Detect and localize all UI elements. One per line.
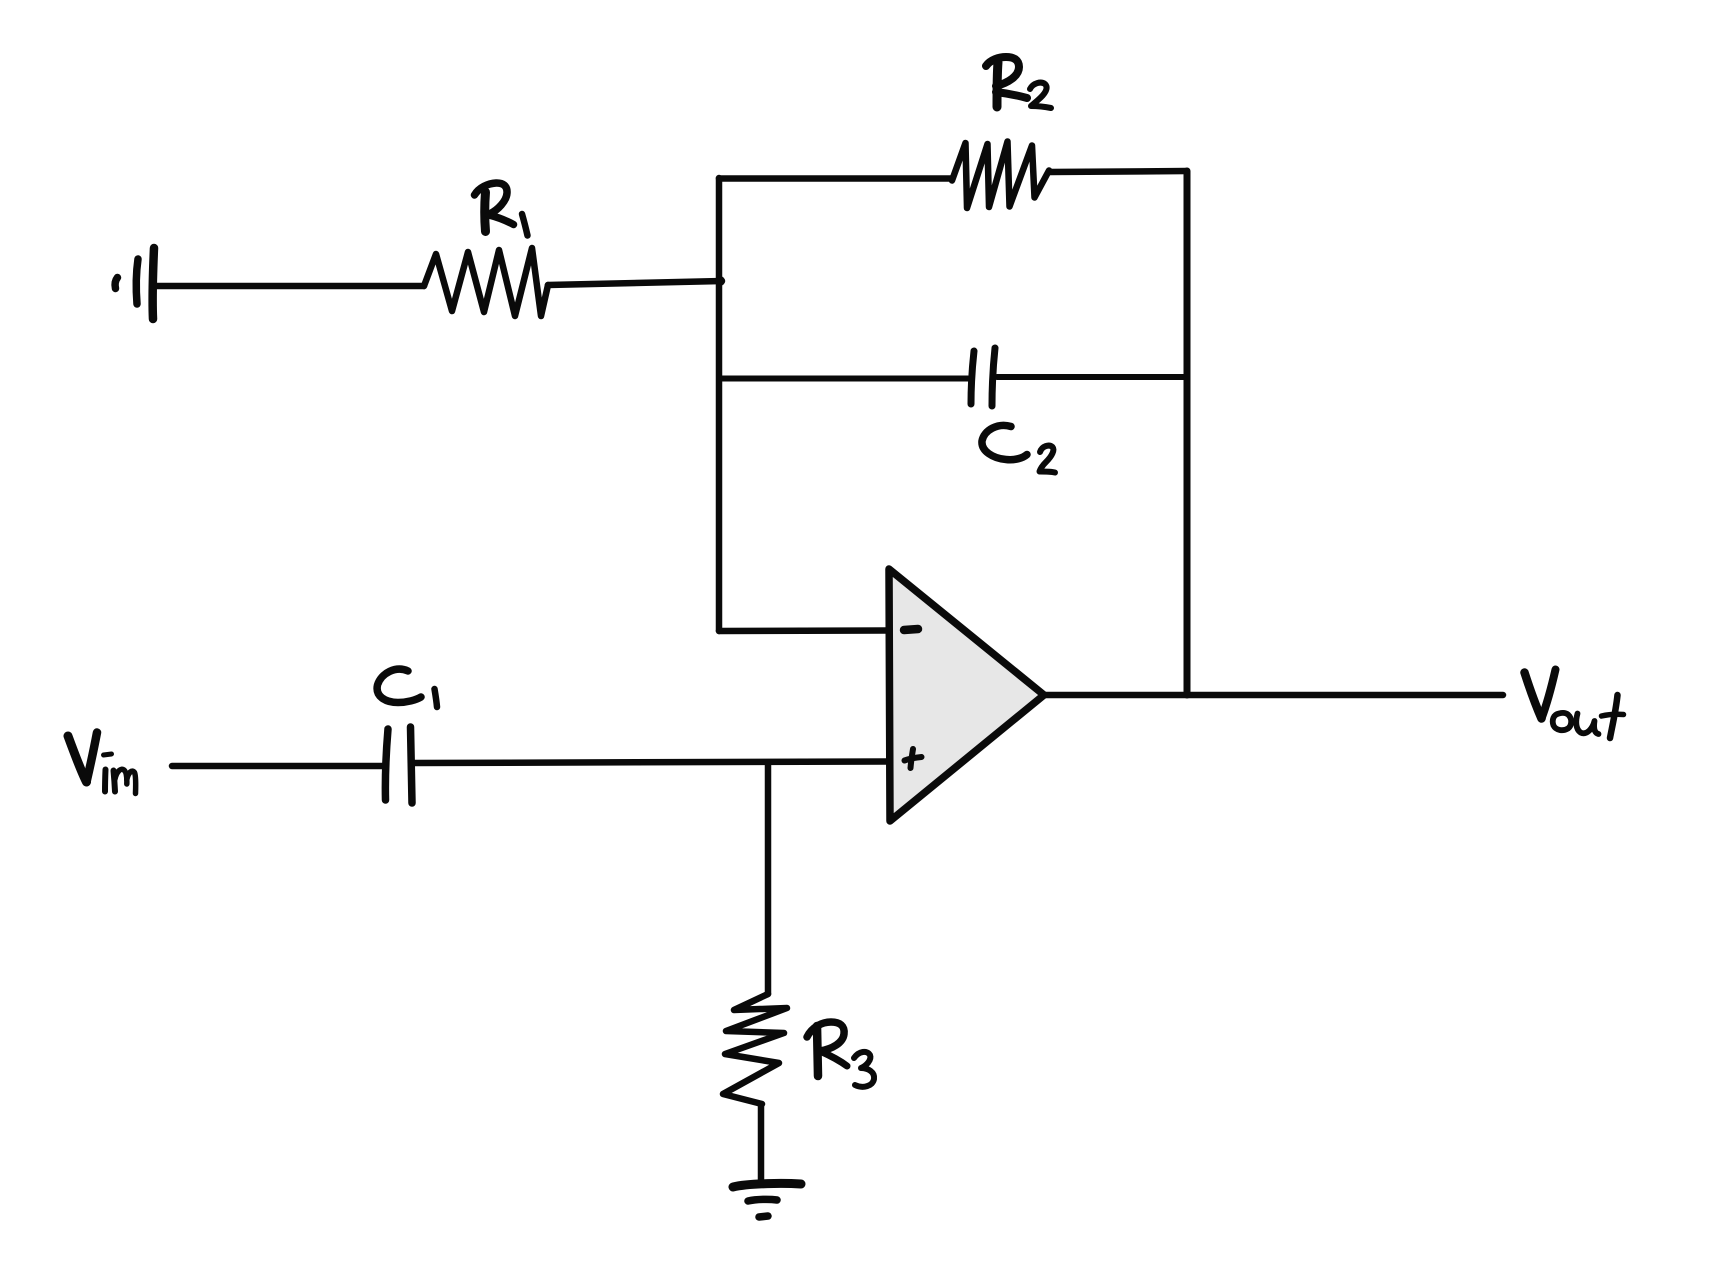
label R1 [475, 183, 528, 236]
wire R2 to feedback right [1050, 171, 1187, 172]
wire Vin to C1 [172, 763, 383, 770]
wire R1 to inverting node [548, 281, 722, 285]
op-amp U1 [889, 569, 1044, 821]
ground [733, 1183, 801, 1217]
op-amp inverting input marker [904, 629, 918, 630]
wire C1 to non-inverting input [414, 762, 886, 764]
op-amp non-inverting input marker [905, 749, 922, 768]
label C2 [982, 425, 1055, 472]
label R3 [807, 1022, 874, 1087]
wire junction to R3 [765, 763, 772, 995]
resistor R2 [952, 142, 1049, 209]
wire to inverting input [719, 627, 886, 634]
wire C2 to feedback right [997, 374, 1187, 380]
wire input to R1 [157, 283, 424, 290]
wire R3 to ground [758, 1104, 765, 1182]
node input terminal [115, 248, 154, 319]
label Vin [68, 733, 136, 794]
label R2 [986, 57, 1051, 108]
label C1 [377, 669, 437, 707]
resistor R3 [723, 994, 787, 1104]
wire vertical feedback left [716, 178, 723, 631]
wire top to R2 [719, 175, 952, 182]
capacitor C2 [971, 348, 995, 406]
wire inverting node to C2 [719, 376, 968, 382]
wire vertical feedback right [1184, 171, 1191, 695]
resistor R1 [424, 248, 548, 316]
wire op-amp output [1044, 692, 1503, 699]
label Vout [1525, 670, 1624, 739]
junction inverting input node [715, 276, 725, 286]
capacitor C1 [385, 727, 412, 803]
